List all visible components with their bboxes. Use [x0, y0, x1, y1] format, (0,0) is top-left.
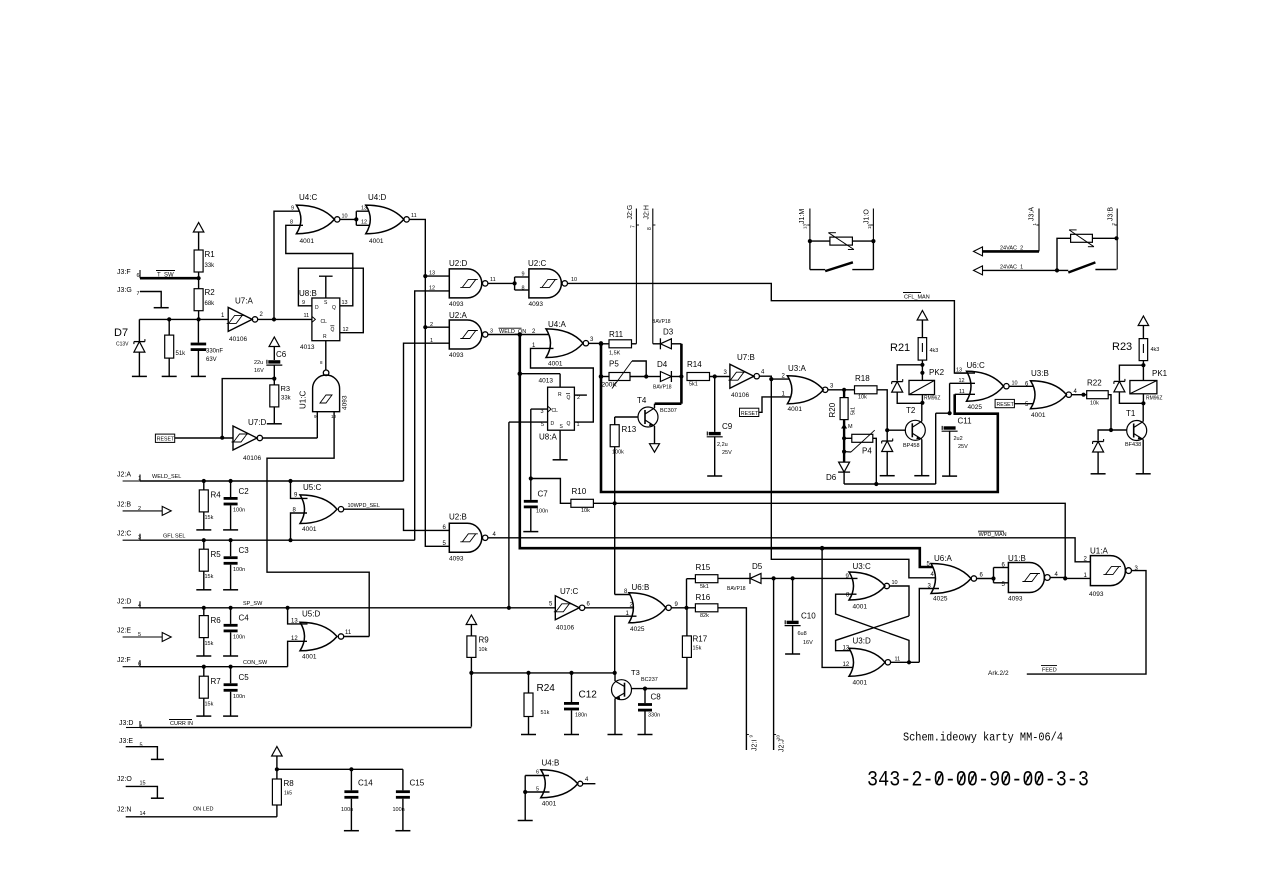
wire U8:A CL to C7: [531, 409, 548, 478]
svg-text:Q: Q: [567, 421, 571, 427]
svg-text:40106: 40106: [731, 392, 749, 399]
ground T3: [608, 734, 623, 736]
wire U6:B out to R15 R16: [671, 579, 695, 610]
svg-text:PK2: PK2: [929, 368, 945, 377]
resistor R18: [855, 374, 878, 401]
svg-text:J2:G: J2:G: [627, 205, 634, 220]
connector J2:E pin5: [117, 628, 171, 642]
svg-text:P5: P5: [609, 360, 619, 369]
capacitor C11 net: [936, 383, 972, 476]
svg-text:BAVP18: BAVP18: [727, 586, 746, 592]
wire RESET to U3:B pin5: [1014, 403, 1037, 405]
wire U4:D out long vertical: [409, 219, 449, 546]
svg-text:15k: 15k: [205, 574, 214, 580]
ground C3: [223, 589, 238, 591]
svg-text:4093: 4093: [1008, 596, 1023, 603]
svg-text:J3:D: J3:D: [119, 720, 133, 727]
wire U4:C out to U4:D inputs: [340, 211, 373, 225]
svg-text:5k1: 5k1: [700, 584, 709, 590]
wire WELD_SEL row: [140, 479, 404, 483]
svg-text:C5: C5: [239, 673, 250, 682]
svg-text:R4: R4: [211, 491, 222, 500]
svg-text:C8: C8: [651, 693, 662, 702]
svg-text:7: 7: [631, 225, 637, 228]
svg-text:BC307: BC307: [660, 408, 677, 414]
wire U5:C pin9: [291, 481, 308, 498]
svg-text:BAVP18: BAVP18: [653, 385, 672, 391]
wire U6:C out to U3:B: [1009, 385, 1038, 387]
capacitor C14: [341, 769, 373, 830]
nand gate U2:D: [429, 259, 496, 308]
svg-text:4093: 4093: [342, 395, 349, 410]
ground R6: [196, 655, 211, 657]
wire GFL_SEL to U2:D pin12: [415, 291, 450, 540]
connector J3:D pin4: [119, 720, 143, 731]
wire U4:A out: [589, 342, 601, 344]
wire U3:A out: [828, 388, 855, 392]
svg-text:T2: T2: [906, 406, 916, 415]
resistor R6: [199, 608, 221, 656]
wire U4:A pin1 from U8:A Q: [531, 348, 594, 422]
svg-text:J3:G: J3:G: [117, 287, 132, 294]
svg-text:100n: 100n: [536, 509, 548, 515]
svg-text:4013: 4013: [300, 344, 315, 351]
svg-text:WELD_SEL: WELD_SEL: [152, 474, 181, 480]
net label SP_SW: [243, 601, 263, 607]
svg-text:C13V: C13V: [116, 342, 129, 348]
svg-text:C12: C12: [579, 690, 598, 701]
nor gate U4:B: [523, 758, 595, 807]
net label CURR_IN: [169, 720, 193, 728]
svg-text:R24: R24: [537, 683, 556, 694]
wire U4:B inputs to ground: [524, 792, 526, 821]
wire timing row: [469, 671, 614, 675]
wire U3:C out down: [890, 586, 910, 616]
thermostat switch J1: [810, 241, 874, 271]
wire U3:D out to U6:A pin3: [891, 589, 939, 665]
wire CON_SW row: [140, 665, 288, 669]
svg-text:C3: C3: [239, 546, 250, 555]
wire U2:A pin2: [425, 326, 449, 328]
svg-text:4093: 4093: [449, 301, 464, 308]
net label GFL_SEL: [163, 534, 185, 540]
wire WELD_ON thick bus: [518, 332, 941, 567]
svg-text:12: 12: [343, 327, 349, 333]
connector J2:F pin6: [117, 657, 141, 668]
svg-text:M: M: [848, 424, 853, 430]
connector J3:A: [1029, 207, 1040, 252]
nor gate U4:A: [532, 320, 594, 368]
zener across PK2: [892, 365, 923, 404]
resistor R11: [601, 330, 636, 357]
wire U5:C out 10WPD_SEL: [344, 509, 450, 530]
net label box RESET U3:A: [740, 408, 760, 417]
svg-text:4001: 4001: [853, 604, 868, 611]
wire U8:B S tie bar: [319, 276, 333, 298]
svg-text:11: 11: [345, 630, 352, 636]
diode D5: [718, 562, 795, 592]
ground C2: [223, 529, 238, 531]
svg-text:T3: T3: [631, 668, 640, 677]
svg-text:R8: R8: [284, 779, 295, 788]
svg-text:U6:B: U6:B: [632, 583, 650, 592]
zener at T1 base: [1093, 430, 1111, 474]
inverter U7:C: [549, 587, 591, 632]
svg-text:9: 9: [291, 205, 294, 211]
svg-text:R9: R9: [479, 636, 490, 645]
nor gate U3:D: [843, 637, 901, 687]
capacitor C7: [524, 476, 571, 531]
wire R9 down to CURR_IN row: [470, 673, 472, 727]
svg-text:J2:B: J2:B: [117, 501, 131, 508]
svg-text:U7:B: U7:B: [737, 353, 755, 362]
svg-text:2u2: 2u2: [954, 436, 963, 442]
svg-text:22u: 22u: [254, 360, 263, 366]
power VCC above C6: [269, 337, 280, 360]
svg-text:BP458: BP458: [903, 443, 920, 449]
wire C6 node to U7:D input: [222, 379, 274, 438]
ground J2:O: [151, 797, 164, 799]
connector J2:I: [746, 735, 758, 752]
nor gate U3:B: [1025, 369, 1078, 419]
svg-text:51k: 51k: [176, 351, 187, 357]
svg-text:4k3: 4k3: [930, 348, 939, 354]
nor gate U5:D: [291, 610, 352, 661]
net label box RESET: [155, 434, 175, 443]
svg-text:24VAC 1: 24VAC 1: [1000, 265, 1023, 271]
wire U2:B out WPD_MAN: [488, 538, 1091, 562]
svg-text:R21: R21: [890, 342, 910, 354]
svg-text:3: 3: [490, 329, 493, 335]
svg-text:11: 11: [304, 313, 310, 319]
svg-text:Q: Q: [567, 395, 571, 401]
svg-text:J2:D: J2:D: [117, 598, 131, 605]
svg-text:12: 12: [843, 662, 850, 668]
ground C14: [344, 830, 359, 832]
svg-text:CFL_MAN: CFL_MAN: [904, 295, 930, 301]
resistor R10: [571, 487, 594, 514]
svg-text:13: 13: [803, 223, 808, 229]
ground C8: [638, 734, 653, 736]
svg-text:4001: 4001: [788, 406, 803, 413]
svg-text:Ark.2/2: Ark.2/2: [988, 670, 1009, 677]
wire R1 bottom to T_SW line: [198, 272, 200, 278]
inverter U7:B: [724, 353, 766, 399]
svg-text:T1: T1: [1126, 409, 1136, 418]
ground D7: [132, 375, 147, 377]
connector J2:H: [644, 205, 656, 344]
connector J2:N pin14: [117, 807, 146, 818]
nor gate U5:C: [293, 483, 344, 533]
resistor R8: [272, 767, 294, 817]
nand gate U2:A: [430, 311, 493, 359]
svg-text:R: R: [558, 392, 562, 398]
ground C10: [785, 653, 800, 655]
ground C5: [223, 715, 238, 717]
wire R21 to PK2: [920, 360, 924, 380]
nand gate U2:B: [443, 513, 497, 563]
svg-text:4013: 4013: [539, 378, 554, 385]
wire D6 row to C11 node: [844, 413, 936, 486]
connector J3:E pin5: [119, 738, 143, 749]
svg-text:82k: 82k: [700, 613, 709, 619]
svg-text:U1:B: U1:B: [1008, 554, 1026, 563]
svg-text:U1:A: U1:A: [1090, 547, 1108, 556]
svg-text:ON LED: ON LED: [193, 807, 214, 813]
svg-text:U7:C: U7:C: [560, 587, 578, 596]
svg-text:U4:D: U4:D: [368, 193, 386, 202]
net label WELD_SEL: [152, 474, 181, 480]
svg-text:J2:E: J2:E: [117, 628, 131, 635]
ground C7: [523, 531, 538, 533]
wire U5:D pin12: [288, 641, 307, 666]
svg-text:11: 11: [490, 277, 496, 283]
wire U3:B out to R22: [1072, 393, 1087, 397]
svg-text:6: 6: [536, 770, 539, 776]
wire T_SW thick: [140, 276, 201, 280]
svg-text:P4: P4: [862, 447, 872, 456]
svg-text:2: 2: [577, 395, 580, 401]
svg-text:13: 13: [843, 645, 850, 651]
wire T3 base row: [632, 687, 688, 691]
svg-text:C9: C9: [722, 422, 733, 431]
svg-text:U3:A: U3:A: [788, 364, 806, 373]
wire R22 to T1 base: [1108, 395, 1127, 432]
svg-text:4001: 4001: [300, 238, 315, 245]
flip-flop U8:B: [299, 289, 349, 351]
svg-text:GFL SEL: GFL SEL: [163, 534, 185, 540]
svg-text:D7: D7: [114, 327, 128, 339]
svg-text:2,2u: 2,2u: [717, 442, 728, 448]
transistor T2: [903, 403, 925, 476]
power VCC symbol above R1: [193, 223, 204, 251]
power VCC above R21: [917, 311, 928, 338]
svg-text:C6: C6: [276, 350, 287, 359]
connector J1:O: [864, 209, 874, 242]
svg-text:U2:B: U2:B: [449, 513, 467, 522]
svg-text:Q: Q: [332, 305, 336, 311]
net label T_SW: [156, 271, 175, 279]
transistor T4: [637, 396, 677, 444]
ground R4: [196, 529, 211, 531]
wire ON_LED row: [126, 816, 277, 818]
wire R2 to input row: [198, 311, 200, 320]
title text: [903, 731, 1063, 745]
svg-text:PK1: PK1: [1152, 369, 1168, 378]
svg-text:1k5: 1k5: [284, 791, 292, 797]
wire U5:D pin13: [288, 608, 308, 624]
wire U8:B R pin to U1:C output: [320, 341, 326, 370]
ground C4: [223, 655, 238, 657]
wire U8:A R from WELD_ON net: [520, 374, 560, 388]
net label box RESET U3:B: [995, 399, 1015, 408]
svg-text:RESET: RESET: [997, 402, 1015, 408]
svg-text:12: 12: [361, 219, 367, 225]
wire D5 node to J2:J: [773, 578, 775, 750]
svg-text:13: 13: [361, 205, 367, 211]
svg-text:U2:C: U2:C: [528, 259, 546, 268]
ground T2: [914, 475, 929, 477]
svg-text:J1:M: J1:M: [799, 209, 806, 224]
svg-text:100n: 100n: [233, 635, 245, 641]
wire U6:A out to U1:B: [977, 568, 1009, 583]
svg-text:J2:H: J2:H: [644, 205, 651, 219]
wire U6:C pin13 stub: [954, 372, 975, 374]
wire R10 out long to U1:B: [593, 503, 1065, 579]
resistor R13: [610, 417, 638, 456]
svg-text:4001: 4001: [548, 361, 563, 368]
wire U8:B feedback rectangle Q- to D: [298, 268, 363, 333]
svg-text:D4: D4: [657, 360, 668, 369]
svg-text:5k1: 5k1: [689, 382, 698, 388]
svg-text:C7: C7: [538, 490, 549, 499]
svg-text:C10: C10: [801, 612, 816, 621]
connector J3:F pin 6: [117, 269, 140, 279]
resistor R2: [194, 278, 215, 311]
svg-text:R13: R13: [622, 425, 637, 434]
svg-text:1,5K: 1,5K: [609, 351, 621, 357]
wire U3:A pin2 stub: [771, 378, 796, 380]
svg-text:68k: 68k: [205, 301, 216, 307]
svg-text:R: R: [323, 334, 327, 340]
svg-text:BF438: BF438: [1125, 442, 1141, 448]
connector J2:G: [627, 205, 639, 344]
svg-text:U3:D: U3:D: [853, 637, 871, 646]
capacitor C8: [638, 689, 661, 735]
svg-text:C14: C14: [358, 779, 373, 788]
resistor R16: [695, 593, 718, 619]
nor gate U3:A: [782, 364, 835, 413]
svg-text:R11: R11: [609, 330, 624, 339]
ground C11: [942, 475, 957, 477]
svg-text:CL: CL: [552, 408, 559, 414]
svg-text:CON_SW: CON_SW: [243, 660, 268, 666]
svg-text:10: 10: [571, 277, 577, 283]
svg-text:U4:B: U4:B: [542, 758, 560, 767]
net label CON_SW: [243, 660, 268, 666]
diode D4: [646, 360, 681, 391]
svg-text:10: 10: [776, 734, 781, 740]
svg-text:5: 5: [140, 743, 143, 749]
svg-text:10k: 10k: [581, 508, 590, 514]
nor gate U3:C: [846, 562, 898, 611]
resistor R20 vertical: [828, 390, 857, 420]
resistor R14: [687, 360, 730, 388]
svg-text:63V: 63V: [206, 357, 217, 363]
svg-text:R3: R3: [281, 384, 291, 393]
wire U5:D out to U1:C input: [267, 412, 369, 637]
svg-text:J3:F: J3:F: [117, 269, 131, 276]
svg-text:11: 11: [411, 213, 417, 219]
svg-text:RM96Z: RM96Z: [1146, 396, 1162, 402]
svg-text:R6: R6: [211, 616, 222, 625]
wire GFL_SEL row: [140, 538, 415, 542]
transistor T3: [612, 668, 658, 735]
svg-text:SP_SW: SP_SW: [243, 601, 263, 607]
svg-text:D6: D6: [826, 473, 837, 482]
svg-text:WPD_MAN: WPD_MAN: [979, 532, 1007, 538]
svg-text:180n: 180n: [575, 713, 587, 719]
transistor T1: [1125, 403, 1147, 474]
wire R16 to J2:I: [718, 608, 747, 750]
svg-text:D: D: [551, 421, 555, 427]
svg-text:J3:B: J3:B: [1108, 207, 1115, 221]
svg-text:R18: R18: [855, 374, 870, 383]
svg-text:33k: 33k: [281, 396, 292, 402]
capacitor C6: [254, 350, 287, 385]
ground U8:A S: [553, 459, 568, 461]
svg-text:BAVP18: BAVP18: [652, 319, 671, 325]
nand gate U1:C: [299, 370, 349, 419]
svg-text:4k3: 4k3: [1151, 347, 1160, 353]
ground zener T2: [880, 475, 895, 477]
svg-text:Schem.ideowy karty MM-06/4: Schem.ideowy karty MM-06/4: [903, 731, 1063, 745]
resistor R7: [199, 667, 221, 716]
svg-text:C15: C15: [410, 779, 425, 788]
capacitor C12: [564, 673, 597, 735]
svg-text:U7:D: U7:D: [248, 418, 266, 427]
ground zener T1: [1091, 473, 1106, 475]
wire U7:A out to U8:B CL: [258, 317, 312, 321]
wire U3:C pin8 diag A: [836, 594, 909, 662]
thermostat switch J3: [1068, 262, 1116, 272]
svg-text:100k: 100k: [612, 450, 624, 456]
wire U6:C pin12 stub: [950, 382, 975, 384]
svg-text:4001: 4001: [302, 653, 317, 660]
zener D7: [114, 319, 145, 376]
rail arrow T4 emitter: [650, 444, 660, 453]
capacitor C2: [224, 481, 250, 530]
thermostat resistor J3: [1057, 230, 1119, 271]
wire J3:G to ground: [140, 292, 161, 308]
svg-text:330nF: 330nF: [206, 349, 223, 355]
nor gate U6:B 4025: [624, 583, 679, 633]
svg-text:10k: 10k: [1090, 401, 1099, 407]
svg-text:1: 1: [577, 422, 580, 428]
connector J2:A pin1: [117, 472, 141, 483]
net label CFL_MAN: [903, 293, 930, 301]
ground U4:B: [518, 820, 533, 822]
net label FEED: [1041, 666, 1057, 674]
wire U1:B out junction: [1050, 576, 1090, 580]
svg-text:R10: R10: [572, 487, 587, 496]
svg-text:U5:D: U5:D: [302, 610, 320, 619]
wire latch diag B: [836, 616, 909, 651]
resistor 51k: [165, 319, 186, 376]
capacitor C9: [707, 377, 733, 477]
svg-text:U6:C: U6:C: [967, 361, 985, 370]
svg-text:3: 3: [541, 409, 544, 415]
resistor R1: [194, 250, 215, 272]
svg-text:T4: T4: [637, 396, 647, 405]
svg-text:R23: R23: [1112, 341, 1132, 353]
zener below T2 base: [882, 430, 893, 476]
svg-text:J1:O: J1:O: [864, 209, 871, 224]
wire 24VAC 2 thick: [983, 250, 1040, 253]
ground 330nF: [191, 375, 206, 377]
svg-text:15: 15: [140, 781, 146, 787]
svg-text:C11: C11: [958, 417, 973, 426]
svg-text:8: 8: [647, 227, 653, 230]
part number text: [867, 767, 1089, 793]
net label Ark.2/2: [988, 670, 1009, 677]
svg-text:J2:J: J2:J: [779, 739, 786, 752]
svg-text:9: 9: [522, 272, 525, 278]
svg-text:51k: 51k: [541, 710, 550, 716]
svg-text:33k: 33k: [205, 263, 216, 269]
resistor R3: [270, 384, 292, 424]
svg-text:J2:O: J2:O: [117, 776, 132, 783]
